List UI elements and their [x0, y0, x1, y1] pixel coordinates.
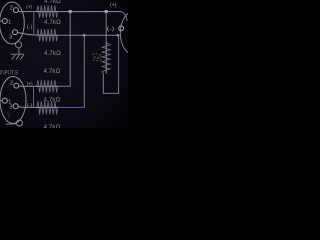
vertical wire bus1 to shunt resistor [105, 12, 107, 43]
junction dot bus1/vertical2 [105, 10, 108, 13]
svg-text:(+): (+) [110, 3, 117, 9]
artifact blob [92, 53, 102, 61]
input A pin 1 [2, 19, 7, 24]
svg-text:4.7kΩ: 4.7kΩ [44, 19, 61, 26]
wire (-) row [58, 34, 119, 36]
svg-text:4.7kΩ: 4.7kΩ [44, 124, 61, 128]
vertical wire from (-) row to input B (-) row [83, 35, 85, 107]
svg-text:(+): (+) [27, 81, 33, 87]
strap A between + and - wires [33, 12, 35, 36]
svg-text:(-): (-) [107, 26, 115, 32]
input B pin 3 [13, 104, 18, 109]
wire shunt resistor bottom [103, 35, 118, 93]
svg-text:INPUT B: INPUT B [0, 70, 19, 77]
input A shell ground lug [16, 42, 22, 48]
svg-text:1: 1 [8, 20, 11, 26]
input A ground bar [11, 53, 25, 55]
input A ground stem [18, 48, 20, 54]
svg-text:2: 2 [10, 5, 13, 11]
input B ground wire left [6, 123, 17, 125]
wire pin2A to R1 [18, 11, 37, 13]
svg-text:3: 3 [7, 113, 10, 119]
input A ground hatch 2 [16, 55, 19, 60]
input A connector shell (XLR circle) [0, 2, 24, 44]
svg-text:(+): (+) [26, 4, 32, 10]
input A ground hatch 1 [12, 55, 15, 60]
input B pin 2 [14, 83, 19, 88]
input A pin1 stub wire [0, 20, 3, 22]
wire pin3A to R2 [17, 33, 36, 36]
bus wire (+) top [58, 11, 122, 13]
shunt resistor (vertical) [105, 43, 107, 74]
svg-text:(-): (-) [27, 103, 33, 109]
svg-text:4.7kΩ: 4.7kΩ [44, 68, 61, 75]
output bus end curve [121, 12, 127, 21]
svg-text:(-): (-) [27, 24, 33, 30]
junction dot (-) row / loop [117, 34, 120, 37]
input A ground hatch 3 [20, 55, 23, 60]
vertical wire from bus1 to input B (+) row [58, 12, 71, 87]
input A pin 2 [13, 8, 18, 13]
input B pin 1 [2, 98, 7, 103]
svg-text:4.7kΩ: 4.7kΩ [44, 0, 61, 5]
junction dot (-) row / vertical3 [83, 34, 86, 37]
wire to R4 row [58, 106, 85, 108]
junction dot bus1/vertical1 [69, 10, 72, 13]
output connector shell arc [120, 12, 145, 54]
input B shell ground lug [16, 120, 22, 126]
wire pin2B to R3 [19, 85, 38, 87]
wire pin3B to R4 [18, 106, 37, 109]
input B connector shell [0, 77, 26, 124]
svg-text:2: 2 [10, 81, 13, 87]
resistor R3 [37, 85, 58, 87]
input B pin1 stub wire [0, 100, 3, 102]
input A pin 3 [13, 30, 18, 35]
svg-text:3: 3 [9, 35, 12, 41]
strap B between + and - wires [33, 86, 35, 107]
output pin circle [119, 26, 124, 31]
resistor R1 [37, 11, 58, 13]
svg-text:4.7kΩ: 4.7kΩ [44, 50, 61, 57]
resistor R4 [37, 106, 58, 108]
svg-text:3: 3 [9, 105, 12, 111]
resistor R2 [37, 34, 58, 36]
